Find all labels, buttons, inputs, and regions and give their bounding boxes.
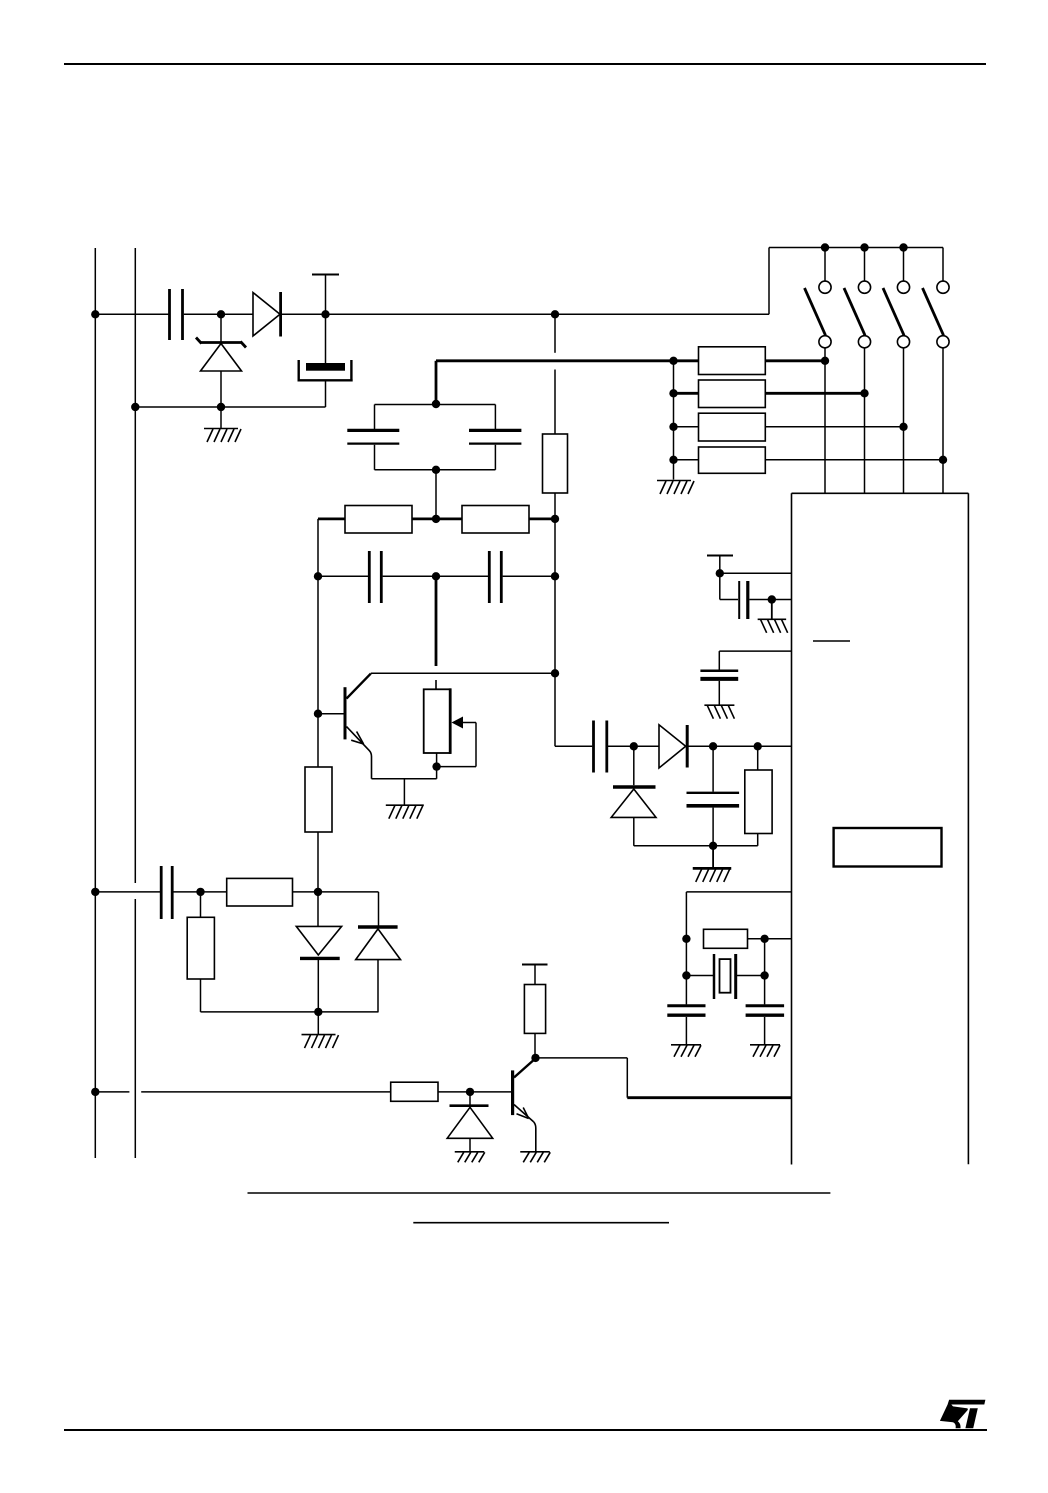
node E bbox=[131, 403, 139, 411]
wire bbox=[435, 470, 437, 519]
diode D3 bbox=[356, 927, 401, 1012]
wire cap loop top bbox=[375, 405, 496, 430]
wire bbox=[317, 576, 319, 767]
wire R3-SW3 bbox=[765, 426, 903, 428]
capacitor C11 bbox=[687, 746, 740, 846]
node S bbox=[432, 466, 440, 474]
node T bbox=[432, 515, 440, 523]
node Y bbox=[314, 710, 322, 718]
ground G1 bbox=[204, 407, 241, 442]
crystal Y1 bbox=[686, 954, 764, 999]
ground G8 bbox=[704, 705, 734, 719]
wire bbox=[503, 575, 555, 577]
node Z bbox=[551, 669, 559, 677]
wire varicap feed thick bbox=[435, 576, 438, 689]
node H bbox=[860, 243, 868, 251]
wire bbox=[748, 938, 792, 940]
wire bbox=[184, 313, 253, 315]
node P bbox=[669, 423, 677, 431]
node V bbox=[314, 572, 322, 580]
switch SW4 bbox=[923, 248, 950, 494]
wire R2 stub thick bbox=[674, 392, 699, 395]
node AL bbox=[709, 742, 717, 750]
wire bbox=[719, 651, 791, 670]
node AG bbox=[466, 1088, 474, 1096]
diode D5 bbox=[659, 725, 687, 768]
ground G10 bbox=[671, 1045, 701, 1057]
wire pot bottom bbox=[436, 753, 438, 779]
resistor R7 bbox=[543, 434, 568, 493]
wire thick to IC bbox=[627, 1096, 791, 1099]
ground G5 bbox=[455, 1152, 485, 1163]
capacitor C8 bbox=[739, 581, 748, 619]
node N bbox=[669, 357, 677, 365]
ground G6 bbox=[520, 1152, 550, 1163]
node M bbox=[939, 456, 947, 464]
wire bbox=[686, 892, 791, 1005]
transistor Q2 bbox=[513, 1058, 536, 1151]
resistor R2 bbox=[699, 380, 766, 408]
node AC bbox=[196, 888, 204, 896]
node O bbox=[669, 389, 677, 397]
resistor R6 bbox=[462, 506, 529, 534]
wire bbox=[293, 891, 379, 893]
wire bbox=[378, 892, 380, 926]
antenna ANT3 bbox=[707, 556, 733, 574]
wire bbox=[317, 832, 319, 892]
ground G4 bbox=[302, 1012, 339, 1048]
bottom rule bbox=[64, 1429, 987, 1431]
wire bbox=[720, 573, 792, 599]
zener diode DZ1 bbox=[196, 314, 246, 407]
node C bbox=[321, 310, 329, 318]
wire bus riser bbox=[768, 248, 770, 315]
ST logo bbox=[940, 1400, 986, 1429]
resistor R14 bbox=[704, 929, 748, 948]
resistor R11 bbox=[391, 1082, 438, 1101]
wire R3 stub bbox=[674, 426, 699, 428]
capacitor C6 bbox=[489, 551, 501, 603]
wire bbox=[173, 891, 226, 893]
capacitor C13 bbox=[746, 1006, 785, 1015]
switch SW3 bbox=[883, 248, 910, 494]
ground G3 bbox=[386, 779, 424, 819]
capacitor C10 bbox=[594, 721, 607, 773]
node AM bbox=[754, 742, 762, 750]
diode D6 varicap bbox=[611, 746, 656, 846]
node AP bbox=[682, 971, 690, 979]
top rule bbox=[64, 63, 986, 65]
wire input top bbox=[95, 313, 169, 315]
wire collector Q1 bbox=[371, 672, 555, 674]
wire bbox=[554, 493, 556, 746]
antenna ANT2 bbox=[522, 965, 548, 985]
capacitor C4 bbox=[469, 430, 521, 443]
node L bbox=[899, 423, 907, 431]
node AR bbox=[760, 971, 768, 979]
wire bbox=[718, 681, 720, 705]
wire resistor bus bbox=[673, 361, 675, 480]
wire base Q1 bbox=[318, 713, 344, 715]
node AN bbox=[709, 842, 717, 850]
op-amp U1 outline bbox=[792, 493, 969, 1164]
wire bbox=[438, 1091, 511, 1093]
switch SW2 bbox=[844, 248, 871, 494]
wire bbox=[608, 745, 659, 747]
resistor R9 bbox=[227, 878, 293, 906]
node F bbox=[217, 403, 225, 411]
node AQ bbox=[760, 935, 768, 943]
node AI bbox=[716, 569, 724, 577]
resistor R4 bbox=[699, 447, 766, 473]
resistor R1 bbox=[699, 347, 766, 375]
ground G9 bbox=[693, 846, 732, 882]
switch SW1 bbox=[805, 248, 832, 494]
wire band-set thick bbox=[436, 361, 699, 404]
wire bbox=[201, 892, 379, 1012]
node I bbox=[899, 243, 907, 251]
node A bbox=[91, 310, 99, 318]
wire rail V+ left bbox=[94, 248, 96, 1158]
capacitor C7 bbox=[161, 866, 172, 919]
capacitor C5 bbox=[369, 551, 381, 603]
node X bbox=[551, 572, 559, 580]
wire bbox=[555, 745, 592, 747]
wire bbox=[281, 313, 769, 315]
wire bbox=[554, 314, 556, 434]
capacitor C3 bbox=[347, 430, 399, 443]
wire bbox=[686, 1017, 764, 1044]
resistor R5 bbox=[345, 506, 412, 534]
capacitor C12 bbox=[667, 1006, 705, 1015]
ground G7 bbox=[758, 600, 788, 633]
block label box U1 bbox=[834, 828, 942, 867]
wire R4 stub bbox=[674, 459, 699, 461]
wire lower-left bbox=[135, 406, 325, 408]
wire R1-SW1 thick bbox=[765, 359, 825, 362]
wire bbox=[764, 939, 766, 1005]
node U bbox=[551, 515, 559, 523]
wire thick osc row bbox=[318, 518, 556, 521]
node Q bbox=[669, 456, 677, 464]
diode D4 bbox=[447, 1092, 493, 1152]
wire to IC pin1 bbox=[536, 1058, 628, 1098]
resistor R13 bbox=[745, 746, 772, 846]
node AK bbox=[630, 742, 638, 750]
wire R2-SW2 thick bbox=[765, 392, 864, 395]
node B bbox=[217, 310, 225, 318]
node W bbox=[432, 572, 440, 580]
node AE bbox=[314, 1008, 322, 1016]
resistor R3 bbox=[699, 413, 766, 441]
wire det bottom bbox=[634, 845, 758, 847]
antenna ANT1 bbox=[312, 275, 339, 315]
wire switch bus bbox=[769, 247, 943, 249]
node AD bbox=[314, 888, 322, 896]
electrolytic capacitor C2 bbox=[298, 314, 353, 407]
node AJ bbox=[768, 595, 776, 603]
transistor Q1 bbox=[345, 674, 372, 779]
node G bbox=[821, 243, 829, 251]
wire afc bbox=[95, 891, 160, 893]
node AO bbox=[682, 935, 690, 943]
caption rule 1 bbox=[248, 1192, 831, 1194]
node D bbox=[551, 310, 559, 318]
node AB bbox=[91, 888, 99, 896]
node R bbox=[432, 400, 440, 408]
node AH bbox=[531, 1054, 539, 1062]
diode D2 bbox=[296, 892, 341, 1012]
wire bbox=[318, 575, 368, 577]
wire mute line bbox=[95, 1091, 390, 1093]
wire R4-SW4 bbox=[765, 459, 943, 461]
diode D1 bbox=[253, 292, 281, 337]
wire cap loop bottom bbox=[375, 445, 496, 470]
node K bbox=[860, 389, 868, 397]
resistor R8 bbox=[305, 767, 332, 832]
potentiometer P1 bbox=[424, 688, 476, 766]
resistor R12 bbox=[524, 985, 545, 1034]
wire osc left leg bbox=[317, 519, 319, 576]
node AA bbox=[432, 762, 440, 770]
ground G11 bbox=[750, 1045, 780, 1057]
wire emitter bottom bbox=[372, 778, 437, 780]
wire bbox=[534, 1033, 536, 1058]
ground G2 bbox=[657, 481, 694, 495]
caption rule 2 bbox=[413, 1222, 669, 1224]
capacitor C1 bbox=[170, 289, 183, 340]
node J bbox=[821, 357, 829, 365]
capacitor C9 bbox=[700, 671, 738, 679]
wire bbox=[383, 575, 489, 577]
resistor R10 bbox=[187, 917, 214, 979]
wire bbox=[687, 745, 791, 747]
wire bbox=[750, 599, 792, 601]
wire rail 2 bbox=[134, 248, 136, 1158]
pin mark U1 bbox=[813, 640, 850, 642]
node AF bbox=[91, 1088, 99, 1096]
